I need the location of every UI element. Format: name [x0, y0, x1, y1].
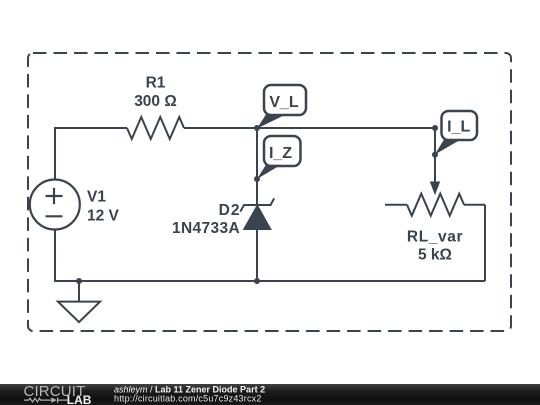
junction I_Z node — [254, 176, 260, 182]
svg-text:I_L: I_L — [447, 119, 470, 136]
svg-text:1N4733A: 1N4733A — [172, 220, 240, 237]
svg-text:I_Z: I_Z — [269, 145, 292, 162]
junction D2 bottom — [254, 278, 260, 284]
footer bar — [0, 384, 540, 405]
svg-text:D2: D2 — [219, 202, 241, 219]
V1 value labels — [87, 189, 120, 225]
zener diode D2 — [240, 198, 274, 229]
voltage source V1 — [30, 180, 80, 230]
schematic boundary (dashed) — [28, 53, 511, 331]
probe V_L — [257, 85, 306, 129]
wire V1 bottom to ground rail — [55, 230, 485, 281]
R1 value labels — [134, 75, 177, 111]
probe I_L — [435, 111, 477, 155]
svg-text:RL_var: RL_var — [407, 228, 463, 245]
svg-text:12 V: 12 V — [87, 208, 120, 225]
wire RL_var right lead down to ground rail — [484, 205, 486, 281]
svg-text:LAB: LAB — [67, 393, 92, 405]
junction at ground — [76, 278, 82, 284]
probe I_Z — [257, 136, 301, 179]
D2 value labels — [172, 202, 240, 237]
junction top right corner — [432, 125, 438, 131]
junction V_L node — [254, 125, 260, 131]
junction I_L node — [432, 152, 438, 158]
ground — [58, 281, 100, 322]
potentiometer RL_var — [385, 155, 485, 216]
svg-text:300 Ω: 300 Ω — [134, 93, 177, 110]
svg-text:5 kΩ: 5 kΩ — [418, 247, 452, 264]
svg-text:http://circuitlab.com/c5u7c9z4: http://circuitlab.com/c5u7c9z43rcx2 — [114, 394, 262, 404]
RL_var value labels — [407, 228, 463, 263]
wire right branch down — [434, 128, 436, 155]
footer logo icon — [24, 397, 68, 402]
wire D2 to ground rail — [256, 230, 258, 282]
svg-text:V1: V1 — [87, 189, 106, 206]
svg-text:R1: R1 — [146, 75, 166, 92]
wire R1 to right corner — [184, 127, 435, 129]
wire V1 top to R1 — [55, 128, 127, 180]
wire zener branch — [256, 128, 258, 205]
svg-text:V_L: V_L — [269, 94, 299, 111]
resistor R1 — [127, 117, 184, 139]
